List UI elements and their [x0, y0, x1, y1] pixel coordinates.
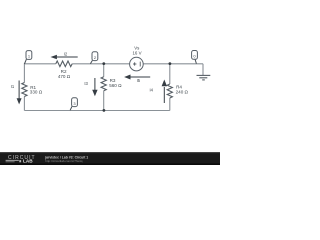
wire top voltage source to ground — [143, 63, 203, 65]
resistor R2 — [56, 61, 72, 79]
current arrow I4 — [149, 80, 167, 104]
wire middle branch upper — [103, 64, 105, 77]
node 2 flag — [90, 52, 97, 64]
current arrow I1 — [11, 81, 22, 105]
junction R4 top — [169, 62, 172, 65]
wire left branch upper — [23, 63, 25, 82]
wire left branch lower — [23, 97, 25, 111]
ground — [197, 64, 211, 80]
svg-text:330 Ω: 330 Ω — [30, 90, 43, 95]
current arrow I3 — [84, 78, 97, 96]
resistor R3 — [101, 77, 122, 91]
current arrow I5 — [124, 75, 150, 84]
wire right branch lower — [169, 98, 171, 111]
node 3 flag — [70, 98, 77, 111]
svg-text:16 V: 16 V — [132, 51, 141, 56]
svg-text:560 Ω: 560 Ω — [109, 83, 122, 88]
svg-text:LAB: LAB — [23, 158, 33, 163]
resistor R1 — [22, 83, 43, 97]
junction node 2 top — [102, 62, 105, 65]
voltage source Vs — [130, 46, 144, 71]
junction node 3 bottom — [103, 109, 106, 112]
svg-text:470 Ω: 470 Ω — [58, 74, 71, 79]
wire top node1 to R2 — [24, 63, 55, 65]
svg-text:http://circuitlab.com/c/7hs4q: http://circuitlab.com/c/7hs4q — [45, 159, 83, 163]
wire top R2 to voltage source — [72, 63, 130, 65]
node 1 flag — [24, 51, 31, 64]
current arrow I2 — [51, 51, 78, 59]
resistor R4 — [167, 84, 188, 98]
node 0 flag — [192, 51, 198, 64]
wire middle branch lower — [103, 91, 105, 111]
CircuitLab logo — [6, 155, 36, 164]
footer bar — [0, 152, 220, 165]
svg-text:240 Ω: 240 Ω — [176, 89, 189, 94]
wire bottom — [24, 110, 169, 112]
wire right branch upper — [169, 64, 171, 84]
